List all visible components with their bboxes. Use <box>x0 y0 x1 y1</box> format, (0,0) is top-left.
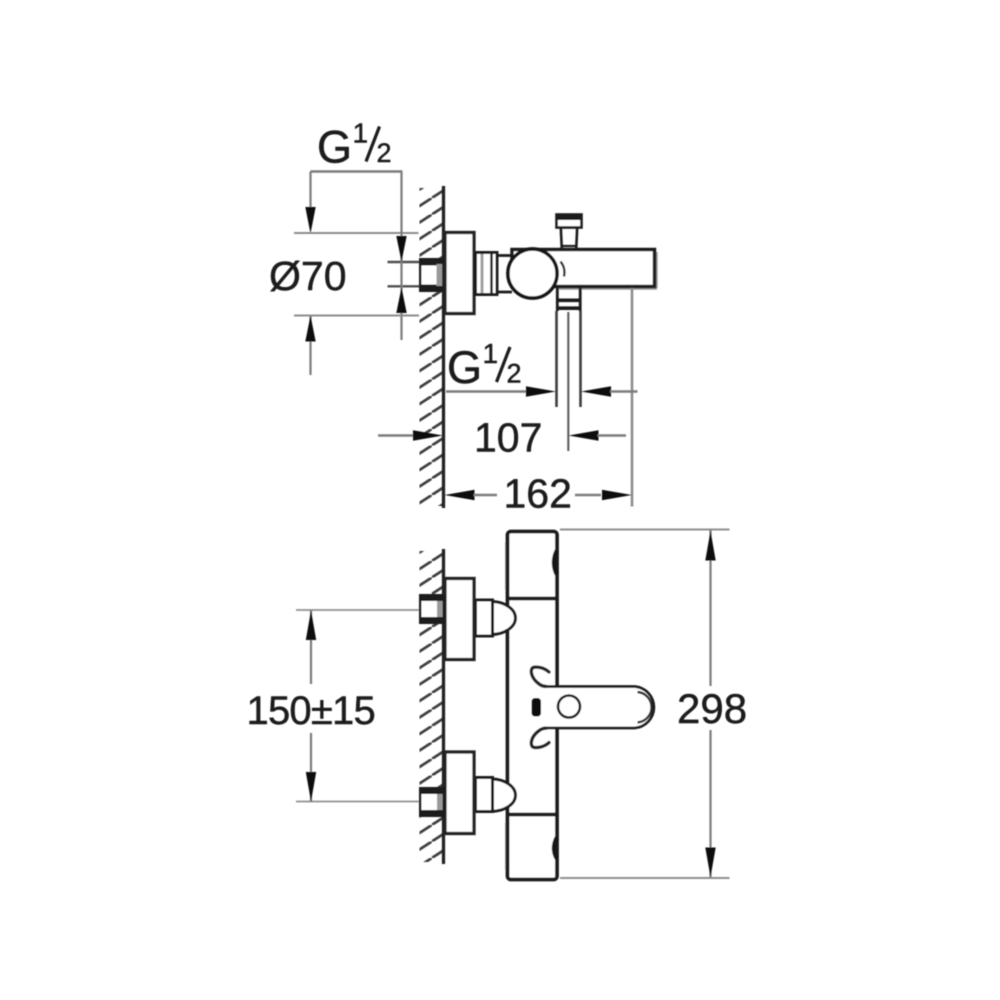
bottom union elbow (front view) <box>491 779 516 811</box>
handle bottom ear (front view) <box>531 728 549 747</box>
svg-text:150±15: 150±15 <box>247 689 375 733</box>
left bracket leg + arrow at escutcheon top <box>309 172 311 211</box>
svg-text:G: G <box>317 122 352 173</box>
298 dimension <box>560 530 747 879</box>
svg-text:162: 162 <box>504 471 572 517</box>
shower outlet pipe lines (side view) <box>555 311 558 407</box>
svg-text:107: 107 <box>474 415 542 461</box>
150±15 dimension <box>247 610 420 802</box>
in-wall connection nut (side view) <box>419 258 445 292</box>
handle top ear (front view) <box>531 667 549 686</box>
pipe stub in wall (side view) <box>388 261 421 263</box>
extension line escutcheon top <box>294 232 419 234</box>
extension line escutcheon bottom <box>294 315 419 317</box>
shower outlet nut below spout (side view) <box>556 287 582 312</box>
svg-text:2: 2 <box>507 359 522 389</box>
svg-text:1: 1 <box>353 118 369 149</box>
label G 1/2 (lower) <box>447 338 522 393</box>
diverter knob (side view) <box>556 214 582 250</box>
bottom wall escutcheon (front view) <box>445 752 474 834</box>
top wall escutcheon (front view) <box>445 579 474 660</box>
lever tick inside spout (side view) <box>561 262 565 277</box>
G1/2 outlet dimension (y=391.5) <box>446 386 638 396</box>
connector cylinder (side view) <box>497 254 512 257</box>
svg-text:2: 2 <box>377 138 392 168</box>
filled pivot mark (front view) <box>532 698 542 717</box>
svg-text:Ø70: Ø70 <box>269 253 347 299</box>
wall escutcheon (side view) <box>445 233 474 314</box>
thermostat handle circle (side view) <box>508 249 557 298</box>
wall hatching (top view) <box>420 188 443 506</box>
162 dimension (y=495) <box>445 471 633 517</box>
spout body (side view) <box>512 250 657 289</box>
svg-text:298: 298 <box>677 685 747 732</box>
temperature handle lever (front view) <box>543 687 654 729</box>
wall hatching (front view) <box>420 551 443 862</box>
outlet centerline <box>567 312 569 451</box>
top in-wall nut (front view) <box>419 594 445 624</box>
handle hub circle (front view) <box>558 696 580 718</box>
bottom in-wall nut (front view) <box>419 787 445 817</box>
svg-text:G: G <box>447 342 482 393</box>
label G 1/2 (top) <box>317 118 392 173</box>
wall line (front view) <box>442 549 445 864</box>
union nut (side view) <box>476 253 498 295</box>
svg-text:1: 1 <box>483 338 499 369</box>
wall line (top view) <box>442 186 445 508</box>
top union elbow (front view) <box>491 602 516 635</box>
extension line from spout end <box>631 288 634 507</box>
right bracket leg + arrows at pipe (G1/2 measure) <box>400 172 402 341</box>
thermostat body (front view) <box>506 532 557 880</box>
G1/2 bracket line <box>311 170 403 172</box>
Ø70 dimension line + arrows <box>309 316 311 376</box>
107 dimension (y=435.5) <box>378 415 626 461</box>
